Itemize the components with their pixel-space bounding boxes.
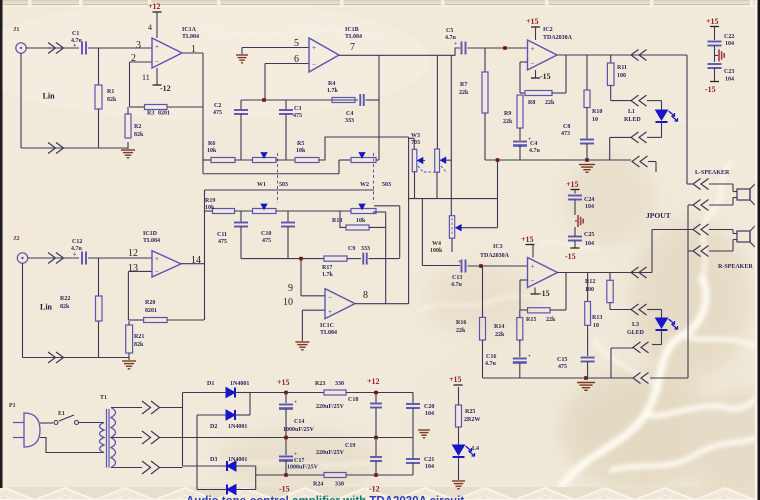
svg-text:C25: C25 (584, 232, 594, 238)
svg-text:104: 104 (425, 411, 434, 417)
svg-text:4.7u: 4.7u (451, 282, 463, 288)
svg-text:475: 475 (293, 113, 302, 119)
svg-text:R22: R22 (60, 296, 70, 302)
svg-text:-12: -12 (160, 84, 171, 93)
svg-text:100: 100 (617, 73, 626, 79)
svg-text:22k: 22k (503, 119, 513, 125)
svg-text:-15: -15 (705, 85, 716, 94)
svg-text:J2: J2 (13, 235, 20, 242)
svg-text:+: + (328, 308, 332, 316)
svg-text:Lin: Lin (40, 303, 53, 312)
svg-text:+: + (454, 41, 457, 47)
svg-text:C21: C21 (424, 457, 434, 463)
svg-text:D2: D2 (210, 424, 217, 430)
svg-text:R13: R13 (592, 315, 602, 321)
svg-text:C5: C5 (446, 28, 453, 34)
svg-text:330: 330 (335, 482, 344, 488)
svg-text:W4: W4 (432, 241, 441, 247)
svg-text:C19: C19 (345, 443, 355, 449)
svg-text:C24: C24 (584, 197, 594, 203)
svg-text:104: 104 (585, 241, 594, 247)
svg-text:R-SPEAKER: R-SPEAKER (718, 264, 753, 270)
svg-text:IC2: IC2 (543, 27, 553, 33)
svg-text:RLED: RLED (624, 117, 641, 123)
svg-text:Audio tone-control amplifier w: Audio tone-control amplifier with TDA203… (186, 496, 464, 500)
svg-text:W2: W2 (360, 182, 369, 188)
svg-text:7: 7 (350, 42, 355, 53)
svg-text:R18: R18 (332, 218, 342, 224)
svg-text:+: + (531, 263, 535, 271)
svg-text:R19: R19 (205, 198, 215, 204)
svg-text:R7: R7 (460, 82, 467, 88)
svg-text:22k: 22k (456, 328, 466, 334)
svg-text:475: 475 (262, 238, 271, 244)
svg-text:333: 333 (361, 246, 370, 252)
svg-text:9: 9 (288, 283, 293, 294)
svg-text:-15: -15 (565, 252, 576, 261)
svg-text:1000uF/25V: 1000uF/25V (287, 465, 319, 471)
svg-text:-15: -15 (279, 485, 290, 494)
svg-text:TDA2030A: TDA2030A (543, 35, 573, 41)
svg-text:R20: R20 (145, 300, 155, 306)
svg-text:TL084: TL084 (345, 34, 362, 40)
svg-text:503: 503 (382, 182, 391, 188)
svg-text:−: − (312, 61, 316, 69)
svg-text:D1: D1 (207, 381, 214, 387)
svg-text:10k: 10k (205, 205, 215, 211)
svg-text:10k: 10k (356, 218, 366, 224)
svg-text:C10: C10 (261, 231, 271, 237)
svg-text:473: 473 (561, 131, 570, 137)
svg-text:R12: R12 (585, 279, 595, 285)
svg-text:82k: 82k (107, 97, 117, 103)
svg-text:−: − (155, 267, 159, 275)
svg-text:22k: 22k (495, 332, 505, 338)
svg-text:+15: +15 (277, 378, 290, 387)
svg-text:IC1A: IC1A (182, 27, 197, 33)
svg-text:10k: 10k (296, 148, 306, 154)
svg-text:GLED: GLED (627, 330, 645, 336)
svg-text:L-SPEAKER: L-SPEAKER (695, 170, 730, 176)
svg-text:Lin: Lin (43, 92, 56, 101)
svg-text:10: 10 (592, 117, 598, 123)
svg-text:+: + (312, 44, 316, 52)
svg-text:−: − (328, 294, 332, 302)
svg-text:C4: C4 (530, 141, 537, 147)
svg-text:100k: 100k (430, 248, 443, 254)
svg-text:2R2W: 2R2W (464, 417, 480, 423)
svg-text:+15: +15 (706, 17, 719, 26)
svg-text:8: 8 (363, 290, 368, 301)
svg-text:10: 10 (593, 323, 599, 329)
svg-text:11: 11 (142, 73, 150, 82)
svg-text:12: 12 (128, 248, 138, 259)
svg-text:+: + (155, 255, 159, 263)
svg-text:C13: C13 (452, 275, 462, 281)
svg-text:4: 4 (148, 23, 152, 32)
svg-text:330: 330 (335, 381, 344, 387)
svg-text:+15: +15 (521, 235, 534, 244)
svg-text:L4: L4 (472, 446, 479, 452)
svg-text:+15: +15 (449, 375, 462, 384)
svg-text:TL084: TL084 (320, 330, 337, 336)
svg-text:IC1D: IC1D (143, 231, 158, 237)
svg-text:C16: C16 (486, 354, 496, 360)
svg-text:P1: P1 (9, 403, 16, 409)
svg-text:C3: C3 (294, 106, 301, 112)
svg-text:1.7k: 1.7k (322, 272, 334, 278)
svg-text:R14: R14 (494, 324, 504, 330)
svg-text:R16: R16 (456, 320, 466, 326)
svg-text:220uF/25V: 220uF/25V (316, 404, 345, 410)
svg-text:475: 475 (558, 364, 567, 370)
svg-text:R25: R25 (465, 409, 475, 415)
svg-text:E1: E1 (58, 411, 65, 417)
svg-text:5: 5 (294, 38, 299, 49)
svg-text:J1: J1 (13, 26, 20, 33)
svg-text:1N4001: 1N4001 (228, 424, 247, 430)
svg-text:13: 13 (128, 263, 138, 274)
svg-text:C11: C11 (217, 232, 227, 238)
svg-text:W1: W1 (257, 182, 266, 188)
svg-text:R5: R5 (297, 141, 304, 147)
svg-text:10k: 10k (207, 148, 217, 154)
svg-text:T1: T1 (100, 395, 107, 401)
svg-text:D3: D3 (210, 457, 217, 463)
svg-text:+15: +15 (566, 180, 579, 189)
svg-text:R17: R17 (322, 265, 332, 271)
svg-text:−: − (155, 58, 159, 66)
svg-text:8201: 8201 (158, 111, 170, 117)
svg-text:-15: -15 (540, 72, 551, 81)
svg-text:8201: 8201 (145, 308, 157, 314)
svg-text:−: − (531, 277, 535, 285)
svg-text:-12: -12 (369, 485, 380, 494)
svg-text:R3: R3 (147, 111, 154, 117)
svg-text:+: + (528, 354, 531, 360)
svg-text:1.7k: 1.7k (327, 88, 339, 94)
svg-text:82k: 82k (134, 342, 144, 348)
svg-text:+12: +12 (367, 377, 380, 386)
svg-text:+: + (531, 45, 535, 53)
svg-text:475: 475 (213, 110, 222, 116)
svg-text:333: 333 (345, 118, 354, 124)
svg-text:TL084: TL084 (143, 238, 160, 244)
svg-text:−: − (531, 60, 535, 68)
svg-text:R10: R10 (592, 109, 602, 115)
svg-text:C20: C20 (424, 404, 434, 410)
svg-text:22k: 22k (545, 100, 555, 106)
svg-text:C18: C18 (348, 397, 358, 403)
svg-text:+: + (294, 400, 297, 406)
svg-text:104: 104 (725, 77, 734, 83)
svg-text:C12: C12 (72, 239, 82, 245)
svg-text:R23: R23 (315, 381, 325, 387)
svg-text:R15: R15 (526, 317, 536, 323)
svg-text:104: 104 (725, 41, 734, 47)
svg-text:TL084: TL084 (182, 34, 199, 40)
svg-text:R21: R21 (134, 334, 144, 340)
svg-text:4.7u: 4.7u (529, 148, 541, 154)
svg-text:475: 475 (218, 239, 227, 245)
svg-text:C4: C4 (346, 111, 353, 117)
svg-text:+15: +15 (526, 17, 539, 26)
svg-text:+12: +12 (148, 2, 161, 11)
svg-text:L3: L3 (632, 322, 639, 328)
svg-text:R6: R6 (208, 141, 215, 147)
svg-text:703: 703 (411, 140, 420, 146)
svg-text:C1: C1 (72, 31, 79, 37)
svg-text:C9: C9 (348, 246, 355, 252)
svg-text:82k: 82k (60, 304, 70, 310)
svg-text:+: + (73, 252, 77, 258)
svg-text:10: 10 (283, 297, 293, 308)
svg-text:IC3: IC3 (493, 244, 503, 250)
svg-text:220uF/25V: 220uF/25V (316, 450, 345, 456)
svg-text:14: 14 (191, 255, 201, 266)
svg-text:-15: -15 (539, 289, 550, 298)
svg-text:+: + (155, 43, 159, 51)
svg-text:4.7u: 4.7u (485, 361, 497, 367)
svg-text:R24: R24 (313, 482, 323, 488)
svg-text:104: 104 (425, 464, 434, 470)
svg-text:R8: R8 (528, 100, 535, 106)
svg-text:+: + (73, 43, 77, 49)
svg-text:82k: 82k (134, 132, 144, 138)
svg-text:L1: L1 (628, 109, 635, 115)
svg-text:C14: C14 (294, 419, 304, 425)
svg-text:22k: 22k (459, 90, 469, 96)
svg-text:22k: 22k (546, 317, 556, 323)
svg-text:R11: R11 (617, 65, 627, 71)
svg-text:C17: C17 (294, 458, 304, 464)
svg-text:IC1C: IC1C (320, 323, 334, 329)
svg-text:C8: C8 (563, 124, 570, 130)
svg-text:R9: R9 (504, 111, 511, 117)
svg-text:100: 100 (585, 287, 594, 293)
svg-text:IC1B: IC1B (345, 27, 359, 33)
svg-text:104: 104 (585, 204, 594, 210)
svg-text:C23: C23 (724, 69, 734, 75)
svg-text:1N4001: 1N4001 (228, 457, 247, 463)
svg-text:C15: C15 (557, 357, 567, 363)
svg-text:C22: C22 (724, 34, 734, 40)
svg-text:R2: R2 (134, 124, 141, 130)
svg-text:TDA2030A: TDA2030A (480, 253, 510, 259)
svg-text:503: 503 (279, 182, 288, 188)
svg-text:3: 3 (136, 40, 141, 51)
svg-text:1000uF/25V: 1000uF/25V (283, 427, 315, 433)
svg-text:R1: R1 (107, 89, 114, 95)
svg-text:JPOUT: JPOUT (646, 211, 671, 220)
svg-text:1N4001: 1N4001 (230, 381, 249, 387)
svg-text:C2: C2 (214, 103, 221, 109)
svg-text:R4: R4 (328, 81, 335, 87)
svg-text:+: + (294, 452, 297, 458)
